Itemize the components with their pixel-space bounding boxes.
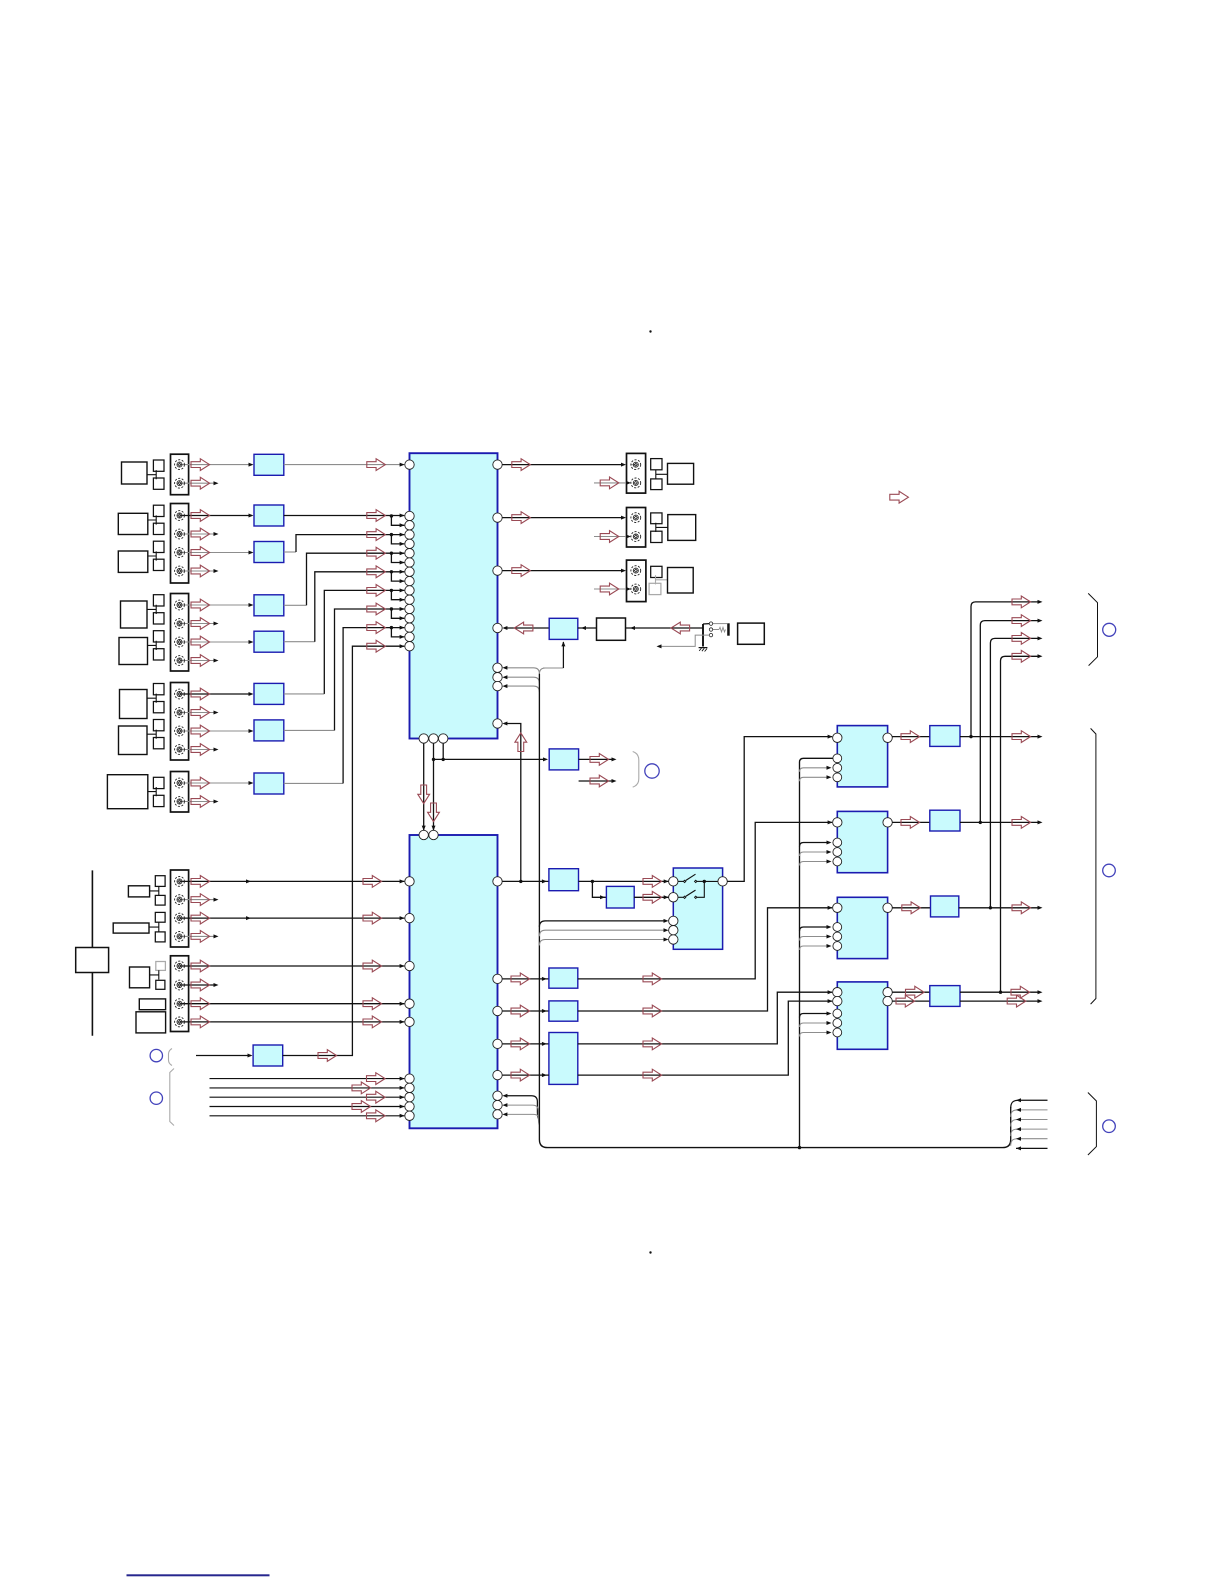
IC2 out row1075 into dual buffer: [498, 1069, 549, 1081]
buffer amps group3: [254, 595, 284, 616]
wire row1075 to power amp D riser2: [578, 999, 833, 1081]
line out connector ref circle: [645, 764, 659, 778]
buffer amps group4: [254, 683, 284, 704]
wire row1044 to power amp D riser1: [578, 990, 833, 1050]
cluster feed wires amp A: [800, 766, 832, 782]
power amp block A: [837, 726, 887, 787]
IC2 out row881 to tape monitor switch: [498, 879, 549, 883]
wire group5 buffer to IC1 row628: [284, 622, 405, 784]
wire group4 buffer1 to IC1 row590: [284, 585, 405, 694]
group2 jack2 stub: [175, 528, 219, 540]
right tall terminal ref circle: [1103, 864, 1116, 877]
switch pins: [669, 877, 728, 945]
main control bus vertical and bottom run: [539, 674, 1010, 1148]
amp C output wire to terminals: [959, 902, 1043, 914]
top-left source group 5 (AUX): [107, 772, 188, 813]
IC1 bottom wire2 to IC2: [428, 739, 440, 831]
wire buffer1 to switch pin1: [579, 876, 669, 888]
IC1 right-side feedback trio wires: [502, 666, 548, 692]
IC1 bottom wire1 to IC2: [418, 739, 430, 831]
volume feed wire into headphone amp bottom: [543, 641, 565, 668]
group3 jack1 wire to buffer: [175, 599, 254, 611]
group3 jack2 stub: [175, 618, 219, 630]
line out buffer box row759: [549, 749, 578, 770]
group2 jack3 wire to buffer: [175, 547, 254, 559]
aux-in wire to buffer: [196, 1054, 253, 1058]
line out wire 1: [579, 754, 617, 766]
power amp block B: [837, 811, 887, 872]
lower-left connector block A: [113, 870, 188, 947]
front panel line: [91, 870, 93, 1035]
IC2 left pins: [405, 877, 414, 1121]
blockB jack2 stub: [175, 979, 219, 991]
buffer amps group2: [254, 505, 284, 526]
headphone jack J1: [703, 622, 730, 647]
wire group1 buffer to IC1: [284, 459, 405, 471]
IC1 input selector: [410, 453, 498, 738]
monitor buffer box 1: [549, 869, 579, 891]
group2 jack1 wire to buffer: [175, 510, 254, 522]
rec out connector R1: [627, 453, 694, 493]
wire phones jack to level box: [626, 622, 704, 634]
group4 jack2 stub: [175, 707, 219, 719]
group4 jack1 wire to buffer: [175, 688, 254, 700]
wire group2 buffer2 to IC1 row534: [284, 529, 405, 552]
top-left source group 1 (tuner): [122, 454, 189, 495]
IC1 left pins: [405, 460, 414, 651]
aux buffer box: [253, 1045, 283, 1066]
cluster feed wires amp B: [800, 841, 832, 866]
IC1 output row2 wire to rec connector R2: [498, 512, 627, 524]
IC1 right pins: [493, 460, 502, 728]
wire group3 buffer1 to IC1 row553: [284, 547, 405, 605]
cluster feed wires amp C: [800, 925, 832, 950]
rec out connector R2: [627, 508, 696, 548]
control bus connector ref circle: [150, 1092, 162, 1104]
aux-in connector ref circle: [150, 1049, 162, 1061]
power amp block C: [837, 897, 887, 958]
amp B output wire to terminals: [960, 817, 1043, 829]
IC1 output row3 wire to rec connector R3: [498, 565, 627, 577]
IC1 monitor return wire row723: [502, 722, 526, 884]
switch output wire to power amp A: [727, 735, 832, 882]
amp D output wires to terminals: [960, 986, 1043, 1007]
amp A output chain: [892, 731, 930, 743]
buffer amp group1: [254, 454, 284, 475]
blockA jack2 stub: [175, 894, 219, 906]
cluster feed wires amp D: [800, 1012, 832, 1037]
line out bracket: [633, 752, 639, 788]
right tall terminal bracket: [1091, 728, 1096, 1004]
stray dot top: [649, 330, 651, 332]
group1 L jack row: [175, 459, 254, 471]
footer rule: [127, 1574, 270, 1576]
blockA jack1 wire to IC2 row881: [175, 876, 405, 888]
group2 jack4 stub: [175, 565, 219, 577]
IC2 out row1011 buffer: [498, 1005, 549, 1017]
monitor buffer box 2: [606, 886, 634, 908]
front panel box: [76, 948, 109, 973]
IC2 right pins: [493, 877, 502, 1119]
group4 jack4 stub: [175, 744, 219, 756]
wire row1011 to power amp C riser: [578, 906, 833, 1017]
control bus line 5: [210, 1110, 405, 1122]
group5 jack1 wire to buffer: [175, 777, 254, 789]
top-right terminal ref circle: [1103, 623, 1116, 636]
line out wire 2: [579, 775, 617, 787]
rec out connector R3: [627, 560, 694, 602]
bottom-right terminal bracket: [1088, 1093, 1097, 1156]
bus branches to switch trio: [539, 919, 668, 946]
amp A output wire to terminals: [960, 731, 1043, 743]
lower-left connector block B: [130, 956, 189, 1033]
top-left source group 4 (DVD/VIDEO): [119, 683, 189, 761]
control bus line 1: [210, 1073, 405, 1085]
IC1 left stepped pair branches: [390, 514, 405, 639]
IC2 out row1044 into dual buffer: [498, 1038, 549, 1050]
group3 jack4 stub: [175, 655, 219, 667]
aux-in bracket: [169, 1049, 173, 1066]
reference arrow (legend): [890, 491, 909, 503]
blockA jack4 stub: [175, 931, 219, 943]
R1 jack2 stub arrow: [594, 477, 631, 489]
blockA jack3 wire to IC2 row918: [175, 912, 405, 924]
top-left source group 3 (MD/TAPE): [119, 594, 189, 672]
top-right terminal bracket: [1088, 593, 1097, 665]
control bus line 2: [210, 1082, 405, 1094]
wire group3 buffer2 to IC1 row572: [284, 566, 405, 642]
headphone amp box: [549, 618, 578, 639]
blockB jack3 wire to IC2 row1004: [175, 998, 405, 1010]
switch contacts internals: [678, 874, 718, 898]
wire buffer2 to switch pin2: [634, 891, 669, 903]
group4 jack3 wire to buffer: [175, 725, 254, 737]
dual buffer tall box: [549, 1033, 578, 1085]
R2 jack2 stub arrow: [594, 531, 631, 543]
blockB jack1 wire to IC2 row966: [175, 960, 405, 972]
top-left source group 2 (CD/SACD): [118, 504, 188, 584]
phones input row into IC1: [502, 622, 549, 634]
power amp pins: [833, 733, 893, 1037]
wire group2 buffer1 to IC1 row516: [284, 510, 405, 522]
control bus bracket: [170, 1069, 174, 1126]
group1 R jack stub: [175, 477, 219, 489]
wire group4 buffer2 to IC1 row609: [284, 603, 405, 730]
phones right box (muting): [738, 623, 765, 644]
buffer amp group5: [254, 773, 284, 794]
speaker line risers to top terminals: [971, 596, 1043, 992]
bus riser to power amp clusters: [800, 758, 834, 1147]
control bus line 4: [210, 1101, 405, 1113]
branch wire to buffer2: [592, 881, 606, 899]
IC1 output row1 wire to rec connector R1: [498, 459, 627, 471]
R3 jack2 stub arrow: [594, 583, 631, 595]
wire from level box to headphone amp: [578, 626, 597, 630]
IC1 bottom wire3 to line-out buffer: [432, 739, 548, 762]
IC2 DSP/selector: [410, 835, 498, 1128]
bottom-right terminal ref circle: [1103, 1120, 1116, 1133]
IC1 bottom pins: [419, 734, 448, 743]
IC2 top pins: [419, 830, 438, 839]
tape monitor switch block: [673, 868, 722, 949]
group3 jack3 wire to buffer: [175, 636, 254, 648]
phones detect stub wire: [657, 635, 710, 648]
wire row979 to power amp B riser: [578, 820, 833, 984]
power amp block D: [837, 982, 887, 1049]
IC2 bottom-right control trio wires: [502, 1094, 539, 1125]
amp B output chain: [892, 817, 930, 829]
ground at phones jack: [699, 648, 708, 652]
group5 jack2 stub: [175, 796, 219, 808]
amp C output chain: [892, 902, 930, 914]
stray dot bottom: [649, 1251, 651, 1253]
phones level box: [597, 618, 626, 640]
aux buffer wire to IC1 row646: [283, 640, 405, 1061]
control bus line 3: [210, 1091, 405, 1103]
blockB jack4 wire to IC2 row1022: [175, 1016, 405, 1028]
bottom-right control connector lines: [1011, 1098, 1048, 1150]
amp D output chain: [892, 986, 930, 1007]
IC2 out row979 buffer: [498, 973, 549, 985]
